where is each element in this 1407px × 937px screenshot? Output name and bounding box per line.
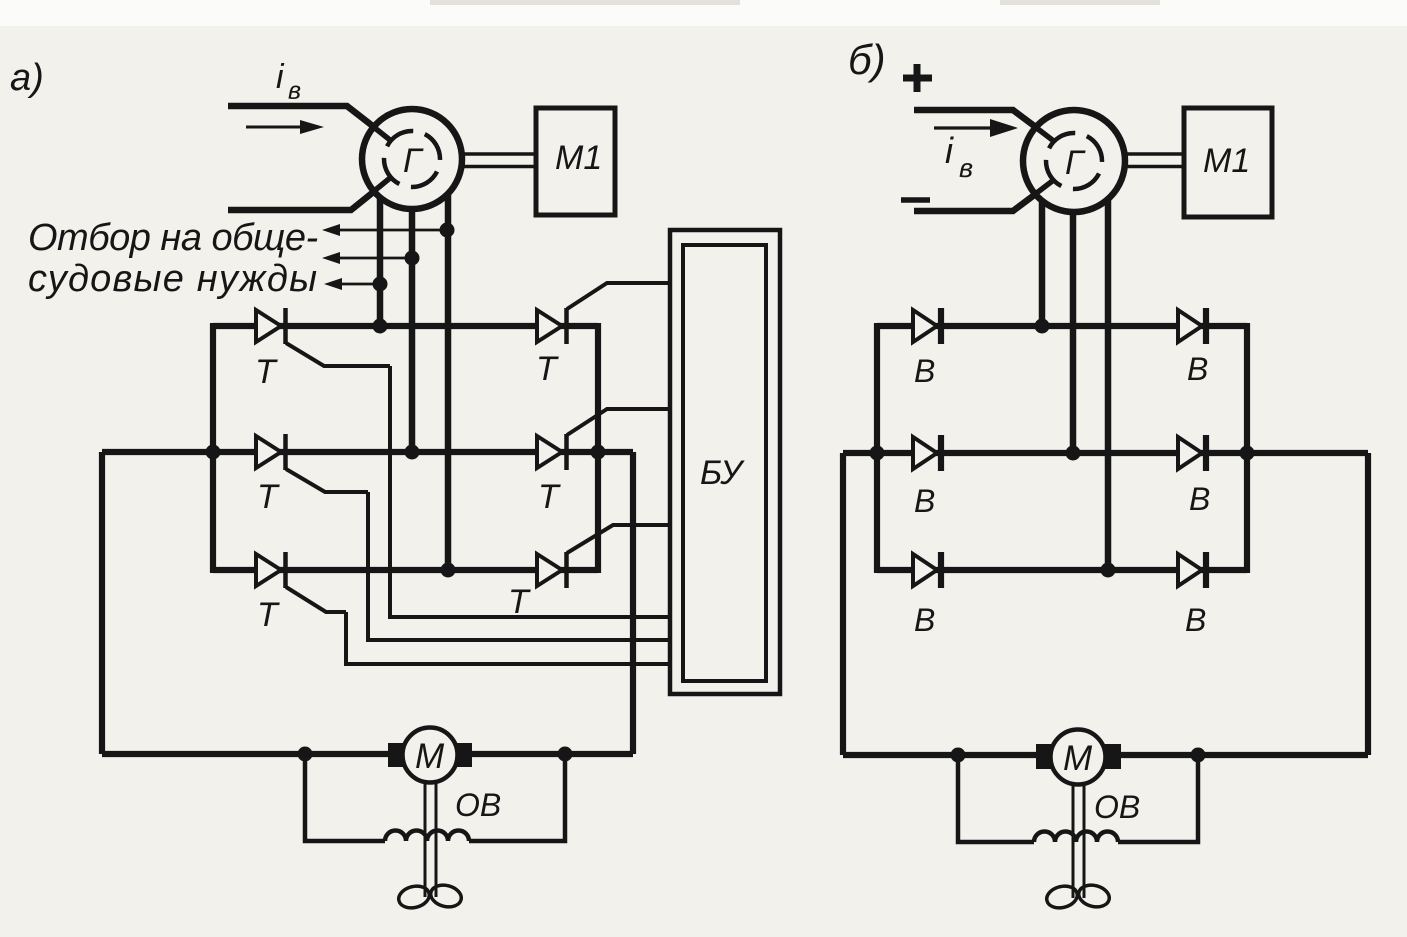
- svg-text:В: В: [1185, 602, 1206, 638]
- junction node phase2-row2: [405, 445, 420, 460]
- svg-text:i: i: [945, 130, 954, 171]
- diode V row3 right: [1178, 552, 1206, 638]
- svg-text:Т: Т: [257, 596, 280, 634]
- left inner rail (right circuit): [874, 323, 880, 573]
- svg-text:Отбор на обще-: Отбор на обще-: [28, 217, 318, 259]
- shaft (left): [461, 154, 536, 167]
- svg-text:ОВ: ОВ: [455, 787, 501, 823]
- row 3 bus (left circuit): [213, 567, 598, 573]
- svg-text:М: М: [415, 737, 445, 776]
- motor shaft (right): [1073, 783, 1084, 898]
- svg-text:судовые нужды: судовые нужды: [28, 258, 318, 300]
- svg-text:Г: Г: [1065, 144, 1086, 182]
- propeller (left): [396, 882, 463, 911]
- thyristor T2 left: [256, 434, 368, 516]
- thyristor T2 right: [537, 409, 670, 516]
- wire field plus lead (right): [914, 110, 1057, 143]
- left rail: [210, 323, 216, 573]
- right outer rail: [630, 452, 636, 754]
- generator G (right): [1023, 110, 1125, 212]
- row 1 bus (right circuit): [877, 323, 1247, 329]
- takeoff text: [28, 217, 318, 300]
- junction node phase1-row1: [373, 319, 388, 334]
- svg-text:Г: Г: [403, 142, 424, 180]
- svg-text:Т: Т: [538, 478, 561, 516]
- phase wire 3 (left): [445, 194, 452, 570]
- phase wire 2 (left): [409, 209, 416, 452]
- diode V row1 right: [1178, 308, 1208, 387]
- junction node OV left tap (right): [951, 748, 966, 763]
- takeoff arrow 3: [324, 277, 388, 292]
- current arrow iv (right): [934, 119, 1018, 137]
- svg-text:В: В: [1189, 481, 1210, 517]
- field winding OV circuit (right): [958, 755, 1198, 842]
- wire field minus lead (right): [914, 178, 1057, 211]
- junction node phase1-row1 (right): [1035, 319, 1050, 334]
- left outer rail (right circuit): [840, 453, 846, 755]
- gate wire T2 left to BU: [368, 492, 670, 640]
- svg-text:а): а): [10, 57, 44, 99]
- gate wire T3 left to BU: [346, 612, 670, 664]
- takeoff arrow 1: [322, 223, 455, 238]
- svg-text:В: В: [914, 602, 935, 638]
- junction node left rail row2 (right): [870, 446, 885, 461]
- bottom bus (left circuit): [102, 751, 633, 757]
- plus terminal: [903, 64, 932, 92]
- svg-text:Т: Т: [536, 350, 559, 388]
- field current label i_v: [276, 58, 301, 105]
- junction node OV right tap: [558, 747, 573, 762]
- junction node right rail row2 (right): [1240, 446, 1255, 461]
- motor shaft (left): [425, 781, 436, 897]
- field lead diagonals over circle (right): [1013, 110, 1055, 211]
- junction node OV right tap (right): [1191, 748, 1206, 763]
- motor M (right): [1036, 730, 1121, 785]
- minus terminal: [901, 197, 930, 203]
- thyristor T3 right: [508, 525, 670, 621]
- junction node phase3-row3 (right): [1101, 563, 1116, 578]
- prime mover M1 (left): [536, 108, 615, 215]
- thyristor T1 right: [536, 283, 670, 388]
- wire field plus lead: [228, 106, 392, 141]
- svg-text:в: в: [959, 153, 973, 183]
- gate wire T1 left to BU: [390, 366, 670, 617]
- wire field minus lead: [228, 177, 392, 210]
- right inner rail (right circuit): [1244, 323, 1250, 573]
- thyristor T3 left: [256, 552, 346, 634]
- thyristor T1 left: [255, 308, 390, 391]
- svg-text:М1: М1: [555, 139, 602, 177]
- generator G (left): [362, 109, 462, 209]
- phase wire 3 (right): [1105, 199, 1112, 570]
- svg-text:Т: Т: [508, 583, 531, 621]
- right rail: [595, 323, 601, 573]
- svg-text:в: в: [288, 77, 301, 105]
- right outer rail (right circuit): [1365, 453, 1371, 755]
- junction node right rail row2: [591, 445, 606, 460]
- field current label i_v (right): [945, 130, 973, 183]
- junction node phase3-row3: [441, 563, 456, 578]
- svg-text:ОВ: ОВ: [1094, 789, 1140, 825]
- phase wire 2 (right): [1070, 212, 1077, 453]
- svg-text:Т: Т: [255, 353, 278, 391]
- svg-text:М1: М1: [1203, 142, 1250, 180]
- prime mover M1 (right): [1184, 108, 1272, 217]
- junction node OV left tap: [298, 747, 313, 762]
- diode V row1 left: [913, 308, 941, 389]
- diode V row2 right: [1178, 435, 1210, 517]
- row 3 bus (right circuit): [877, 567, 1247, 573]
- shaft (right): [1124, 154, 1184, 167]
- left outer rail: [99, 452, 105, 754]
- svg-text:В: В: [914, 483, 935, 519]
- diode V row2 left: [913, 435, 941, 519]
- row 1 bus (left circuit): [213, 323, 598, 329]
- bottom bus (right circuit): [843, 752, 1368, 758]
- control unit BU: [670, 230, 780, 694]
- svg-text:БУ: БУ: [700, 454, 745, 492]
- row 2 bus (left circuit): [102, 449, 633, 455]
- svg-text:В: В: [914, 353, 935, 389]
- propeller (right): [1044, 882, 1111, 911]
- svg-text:Т: Т: [257, 478, 280, 516]
- current arrow iv: [246, 120, 324, 134]
- junction node phase2-row2 (right): [1066, 446, 1081, 461]
- phase wire 1 (left): [377, 197, 384, 326]
- field winding OV circuit (left): [305, 754, 565, 841]
- diode V row3 left: [913, 552, 941, 638]
- takeoff arrow 2: [322, 251, 420, 266]
- svg-text:М: М: [1063, 739, 1093, 778]
- row 2 bus (right circuit): [843, 450, 1368, 456]
- svg-text:б): б): [848, 36, 886, 83]
- field lead diagonals over circle (left): [347, 106, 390, 210]
- motor M (left): [388, 728, 472, 783]
- svg-text:В: В: [1187, 351, 1208, 387]
- phase wire 1 (right): [1039, 200, 1046, 326]
- junction node left rail row2: [206, 445, 221, 460]
